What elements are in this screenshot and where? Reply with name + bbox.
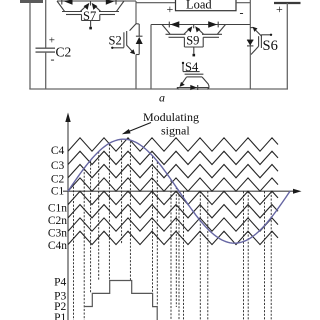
wire C2 top lead [45, 0, 47, 48]
dashed crossing marker x=176.3 [175, 187, 177, 307]
svg-text:Load: Load [186, 0, 212, 12]
diode S9 right (arrow + cathode bar) [208, 21, 217, 27]
dashed crossing marker x=171 [170, 180, 172, 320]
dashed crossing marker x=243.5 [243, 191, 245, 320]
wire S2 collector riser [135, 1, 137, 24]
dashed crossing marker x=179 [178, 191, 180, 320]
svg-text:signal: signal [161, 124, 190, 138]
carrier wave C2 [68, 165, 278, 178]
x axis (time) with arrow [63, 190, 295, 192]
svg-text:C1n: C1n [48, 203, 67, 215]
S9 gate leads joined [169, 36, 185, 38]
right capacitor (cut off at top) [274, 2, 301, 89]
wire left vertical [29, 3, 31, 89]
svg-text:-: - [51, 52, 55, 66]
wire S9 left terminal to bus [150, 25, 152, 90]
carrier wave C3 [68, 151, 278, 164]
dashed crossing marker x=73.5 [73, 183, 75, 320]
IGBT S4 (horizontal, on bus) [177, 60, 209, 90]
modulating sine wave [68, 139, 290, 243]
dashed crossing marker x=207.8 [207, 191, 209, 320]
S6 emitter arrow [250, 27, 253, 29]
dashed crossing marker x=183.5 [183, 191, 185, 320]
S4 collector lead [202, 77, 209, 88]
S4 gate lead + terminal dot [183, 71, 200, 73]
dashed crossing marker x=84.2 [83, 169, 85, 320]
dashed crossing marker x=248.2 [247, 191, 249, 320]
S9 centre emitter stub [193, 25, 195, 29]
svg-text:+: + [49, 35, 55, 47]
Load [136, 0, 250, 20]
carrier wave C4n [68, 231, 278, 244]
svg-text:S6: S6 [263, 38, 278, 54]
svg-text:+: + [167, 2, 174, 16]
S6 gate lead + terminal dot [261, 34, 270, 36]
diode S7 left (cathode bar + arrow) [61, 0, 63, 5]
diode D2 (antiparallel of S2) [136, 35, 143, 37]
S7 left collector lead [57, 1, 65, 11]
carrier wave C3n [68, 218, 278, 231]
S7 right gate bar [99, 11, 119, 13]
svg-text:S7: S7 [83, 9, 96, 23]
wire C2 bottom lead [45, 53, 47, 89]
wire S2 emitter-diode junction [136, 54, 139, 56]
svg-text:+: + [276, 2, 283, 16]
svg-text:C4: C4 [51, 145, 65, 157]
wire S7 top rail [57, 0, 136, 2]
S7 centre emitter stub [90, 1, 92, 6]
dashed crossing marker x=90.6 [90, 161, 92, 294]
dashed crossing marker x=264.5 [264, 191, 266, 320]
wire S4 branch on bus [177, 87, 209, 89]
dashed crossing marker x=157.3 [156, 162, 158, 306]
wire S9 top rail [151, 24, 250, 26]
svg-text:C3n: C3n [48, 228, 67, 240]
S2 gate lead + terminal dot [113, 47, 124, 49]
dashed crossing marker x=200.3 [199, 191, 201, 320]
carrier wave C1n [68, 191, 278, 204]
svg-text:Modulating: Modulating [143, 110, 199, 124]
wire S2 emitter to bus [135, 55, 137, 90]
dashed crossing marker x=98.7 [98, 152, 100, 282]
carrier wave C4 [68, 138, 278, 151]
S4 gate bar [185, 73, 204, 75]
switch S7 (bidirectional, cut off at top) [57, 0, 136, 29]
S9 left gate bar [166, 33, 186, 35]
dashed crossing marker x=121.6 [121, 140, 123, 244]
svg-text:P1: P1 [54, 312, 66, 320]
capacitor C2 bottom plate [36, 51, 56, 53]
svg-text:S9: S9 [186, 33, 199, 47]
capacitor C2 [36, 0, 72, 89]
svg-text:C2: C2 [56, 45, 72, 60]
S4 emitter arrow [181, 77, 186, 85]
S6 body bar [258, 36, 260, 46]
S6 collector lead [251, 46, 259, 54]
svg-text:C2: C2 [51, 174, 65, 186]
wire load left [136, 2, 176, 4]
S9 gate terminal dot [193, 47, 195, 54]
svg-text:P4: P4 [54, 277, 66, 289]
IGBT S6 (right leg) [247, 0, 278, 89]
switch S9 (bidirectional) [151, 21, 250, 89]
S7 gate leads joined [66, 14, 82, 16]
wire load right [236, 2, 250, 4]
svg-text:C3: C3 [51, 160, 65, 172]
S7 right collector lead [117, 1, 125, 11]
S7 right emitter arrow [94, 5, 100, 11]
battery plate (cut off at top) [20, 0, 43, 3]
S9 right collector lead [218, 25, 226, 35]
diode S9 left (cathode bar + arrow) [168, 22, 170, 28]
dashed crossing marker x=152.5 [152, 156, 154, 306]
svg-text:S4: S4 [185, 60, 199, 74]
S2 emitter arrow [127, 45, 133, 52]
wire bottom bus [29, 88, 288, 90]
wire S2 antiparallel-diode branch [138, 24, 140, 37]
load box + label [176, 0, 237, 11]
wire right leg (load to bus) [249, 0, 251, 89]
capacitor C2 top plate [36, 47, 56, 49]
diode D4 (antiparallel of S4) [190, 85, 197, 90]
S9 right gate bar [202, 33, 222, 35]
svg-text:C4n: C4n [48, 240, 67, 252]
S2 gate bar [123, 32, 125, 47]
S9 right emitter arrow [197, 28, 203, 34]
svg-text:S2: S2 [109, 34, 122, 48]
dashed crossing marker x=271.2 [270, 191, 272, 320]
IGBT S2 [109, 1, 143, 89]
carrier wave C2n [68, 205, 278, 218]
diode D6 (antiparallel of S6) [247, 39, 254, 41]
staircase gate signal P1-P4 [84, 281, 157, 320]
S7 left emitter arrow [81, 5, 87, 11]
carrier wave C1 [68, 178, 278, 191]
svg-text:C1: C1 [51, 186, 65, 198]
diode S7 right (arrow + cathode bar) [106, 0, 115, 5]
wire C3 to bus [286, 3, 288, 89]
S6 gate bar [260, 35, 262, 49]
svg-text:-: - [240, 6, 244, 20]
S2 body bar [126, 31, 128, 46]
S9 left collector lead [162, 25, 170, 35]
svg-text:a: a [159, 91, 165, 105]
svg-text:C2n: C2n [48, 215, 67, 227]
S2 collector lead [130, 24, 136, 31]
S4 body bar [187, 76, 202, 78]
dashed crossing marker x=130.4 [129, 141, 131, 280]
capacitor C3 bottom plate (cut off) [274, 2, 301, 4]
S7 gate terminal dot [90, 21, 92, 27]
y axis with arrow [67, 117, 69, 320]
S7 left gate bar [62, 11, 82, 13]
dashed crossing marker x=109.4 [108, 144, 110, 281]
S9 left emitter arrow [184, 28, 190, 34]
